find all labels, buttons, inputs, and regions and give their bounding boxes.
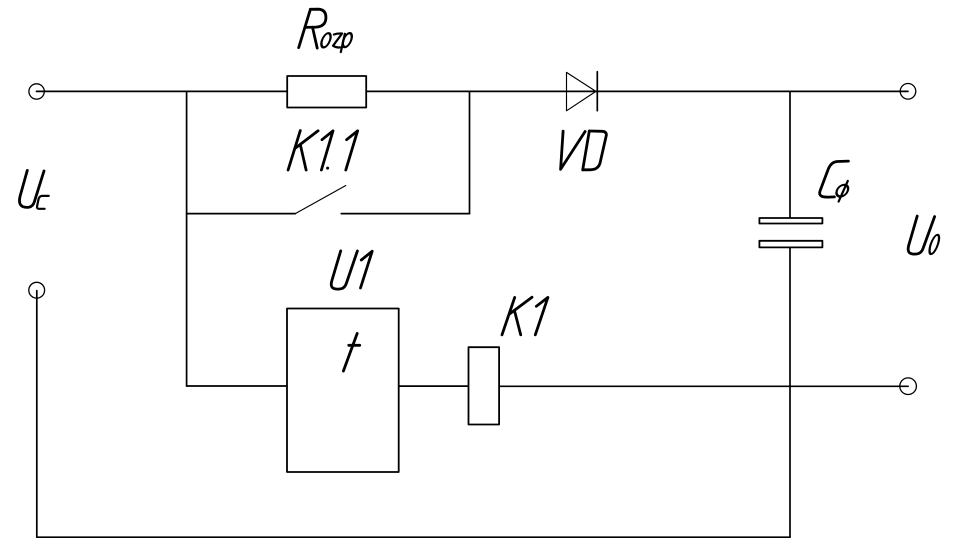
- input terminal bottom-left: [29, 282, 45, 298]
- switch K1.1 left fixed contact line: [187, 213, 296, 215]
- wire: resistor to diode (through anode triangle): [366, 90, 597, 92]
- relay coil K1 box: [469, 347, 500, 424]
- label Cf (capacitor designator): [820, 161, 849, 197]
- wire: bottom input terminal down: [36, 291, 38, 538]
- switch K1.1 blade (open contact diagonal): [295, 186, 346, 214]
- diode VD cathode bar: [596, 72, 598, 111]
- output terminal top-right: [900, 84, 916, 100]
- wire: capacitor branch upper (top wire down to Cf): [789, 91, 791, 218]
- wire: switch branch right vertical: [469, 91, 471, 213]
- resistor Rogr body: [287, 76, 366, 108]
- wire: top input to resistor: [37, 90, 288, 92]
- input terminal top-left: [29, 84, 44, 99]
- diode VD triangle: [567, 72, 596, 110]
- label K1 (relay coil designator): [502, 297, 548, 335]
- timer block U1 box: [287, 309, 399, 473]
- wire: K1 to bottom output terminal: [499, 385, 908, 387]
- capacitor Cf top plate: [759, 218, 822, 224]
- wire: diode cathode to top output terminal: [597, 90, 908, 92]
- label U1 (timer block designator): [331, 251, 372, 289]
- output terminal bottom-right: [900, 378, 917, 395]
- label K1.1 (switch contact designator): [288, 131, 358, 170]
- label Uc (supply voltage): [19, 170, 44, 207]
- label Rogr (resistor designator): [299, 9, 326, 48]
- label VD (diode designator): [561, 131, 607, 170]
- wire: left branch vertical (top wire down to U1 input): [186, 91, 188, 386]
- wire: U1 output to relay coil K1: [399, 385, 469, 387]
- label U0 (output voltage): [908, 216, 934, 254]
- wire: capacitor branch lower (Cf down to bottom wire): [789, 248, 791, 538]
- wire: left branch into U1: [187, 385, 287, 387]
- switch K1.1 right fixed contact line: [341, 213, 469, 215]
- wire: bottom return: [37, 536, 790, 538]
- capacitor Cf bottom plate: [759, 241, 822, 248]
- label t (time symbol inside U1): [343, 333, 359, 371]
